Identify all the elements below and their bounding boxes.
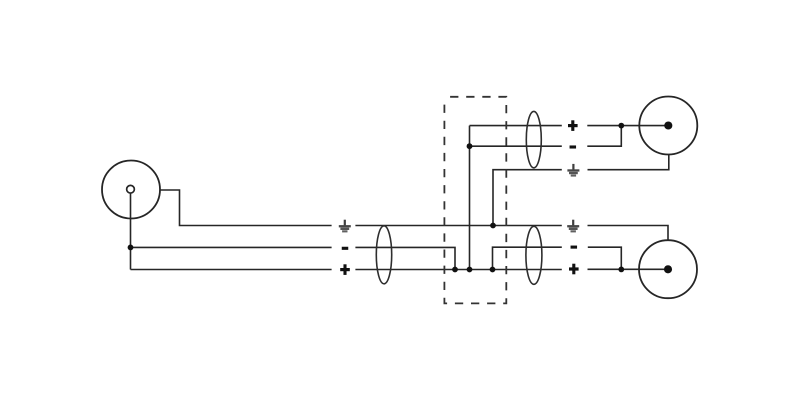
connector R1 center pin [664,121,672,129]
wire: top ground to R1 shell [588,155,669,170]
cable shield ellipse (left cable) [376,226,391,284]
wire: ground line middle segment [355,225,561,227]
wire: plus line to R2 pin [588,268,669,270]
connector J1 shell (6.3mm jack plug, left) [102,161,160,219]
ground symbol left cable [339,220,351,233]
wire: bottom minus riser [493,247,562,269]
wire: top minus link to plus [587,126,621,147]
junction: top minus link on plus line [618,123,624,129]
junction: top minus on riser [467,143,473,149]
ground symbol top right [567,164,579,177]
wire: minus line left [131,246,332,248]
splitter junction box (dashed) [444,97,506,304]
ground symbol bottom right [567,220,579,233]
junction: bottom minus on plus line [490,267,496,273]
junction: top ground riser on ground line [490,223,496,229]
wire: top plus line to R1 pin [587,125,668,127]
junction: tip/minus branch [128,245,134,251]
wire: vertical riser to top branch [469,126,471,270]
wire: plus line left [131,269,332,271]
plus label top right [568,120,578,131]
wire: top minus line [470,145,562,147]
wire: J1 shell to ground line [160,190,332,226]
wire: top plus line [470,125,562,127]
junction: minus drop on plus line [452,267,458,273]
cable shield ellipse (top right cable) [526,111,541,167]
wire: plus line middle [355,269,561,271]
plus label bottom right [569,264,579,275]
minus label top right [570,145,577,148]
wire: minus line left drop to plus [355,247,455,269]
wire: bottom minus link to plus [588,247,622,269]
plus label left cable [340,264,350,275]
wire: top ground riser [493,170,562,226]
minus label left cable [342,247,349,250]
connector R1 body (top RCA) [639,97,697,155]
cable shield ellipse (bottom right cable) [526,226,542,284]
connector R2 body (bottom RCA) [639,240,697,298]
wire: ground line to R2 shell [588,226,669,241]
minus label bottom right [571,246,578,249]
connector J1 tip pin [127,185,135,193]
junction: bottom minus link on plus line [618,267,624,273]
wire: J1 tip down to plus line [130,193,132,269]
connector R2 center pin [664,265,672,273]
junction: riser on plus line [467,267,473,273]
